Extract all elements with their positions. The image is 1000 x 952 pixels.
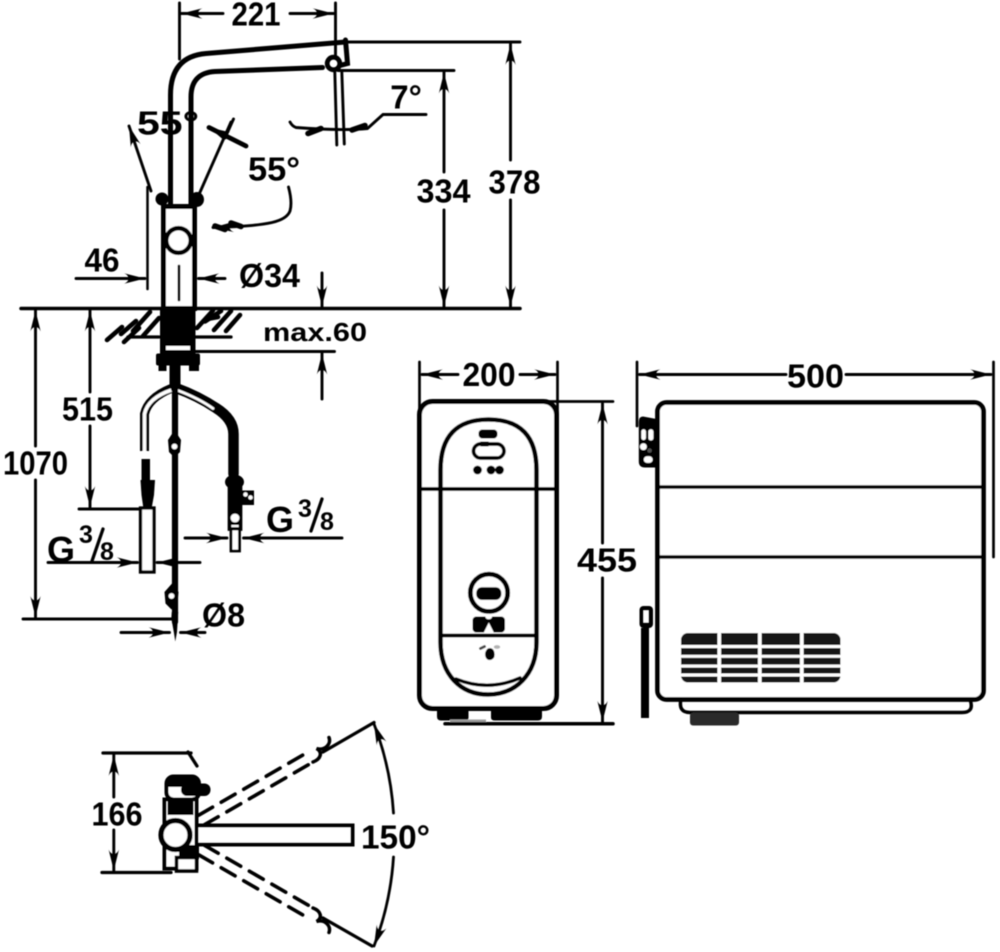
FAUCET-FRONT-VIEW [3,0,541,642]
svg-text:455: 455 [577,542,637,579]
dimension 200 extension line right [556,362,559,489]
icon dots row [473,466,482,475]
mousseur stream line right [342,72,345,145]
shank white slot [166,346,190,350]
dimension 378 vertical line upper segment [509,44,512,160]
base skirt line [680,699,971,713]
dimension 46 extension line [146,187,149,289]
dimension 515 line upper segment [89,311,92,393]
COOLER-FRONT-VIEW [420,356,638,724]
upper break mark [313,738,330,763]
foot right [491,709,542,721]
7-degree wedge tick right [352,126,365,131]
55-degree second leader tick b [231,223,241,227]
svg-text:G: G [266,499,294,540]
droplet mark [485,648,495,660]
svg-text:55°: 55° [137,105,199,142]
body top view outline [165,800,197,869]
reference line top of spout for 378 [348,41,520,44]
swivel dashed ray lower line a [204,845,309,905]
svg-text:334: 334 [417,173,472,210]
swivel dashed ray lower line b [199,855,304,916]
dimension 334 vertical line lower segment [443,210,446,307]
svg-text:166: 166 [92,796,143,833]
max60 lower arrow [321,354,324,400]
55-degree rotation double arrow [209,128,246,147]
dimension diameter34 line with arrow [199,277,226,280]
swivel dashed ray upper line a [204,764,309,824]
svg-text:46: 46 [85,242,120,279]
svg-text:55°: 55° [248,151,300,188]
left hose black segment [142,459,151,481]
control knob bar [476,587,501,600]
arch lower seam [441,634,536,638]
55-degree left leader with arrow [129,126,151,191]
spout outer contour [171,42,346,208]
faucet body circle detail [166,228,191,253]
svg-text:515: 515 [62,391,113,428]
mousseur stream line left [335,72,337,146]
base foot block [690,713,739,726]
FAUCET-TOP-VIEW [92,723,431,947]
right hose thin tube [231,529,240,551]
central rod bulge 1 [168,430,181,458]
handle dark top [167,777,200,788]
reference end tick [188,752,197,766]
arch chin line [456,678,520,685]
cooler side seam line 2 [659,555,982,559]
supply stem [170,366,181,393]
swivel arc lower with arrow [374,857,394,946]
svg-text:8: 8 [320,508,334,536]
dimension 1070 line upper segment [34,311,37,447]
body dark band [168,802,194,816]
dimension 166 line lower segment [112,830,115,871]
dimension 455 line upper segment [601,404,604,544]
cooler side seam line 1 [659,485,982,489]
handle shoulder blob left [156,193,169,206]
upper solid segment [323,723,374,753]
55-degree second leader tick a [215,226,225,230]
cable [641,628,649,718]
left hose bulge cap [141,480,156,509]
countertop hatching [107,311,240,343]
dimension 515 line lower segment [89,426,92,507]
dimension 221 line with arrows [182,12,334,15]
gray smudge under left foot [450,720,486,724]
dimension 455 top reference line [539,400,613,403]
dimension 378 vertical line lower segment [509,200,512,307]
diameter8 dimension line [121,631,170,634]
faucet shank below deck [160,309,196,354]
G38 left label [47,521,114,570]
handle lever pill [181,784,211,797]
dimension 200 line with arrows [422,373,458,376]
svg-text:Ø34: Ø34 [239,257,301,294]
swivel dashed ray upper line b [199,755,304,816]
right hose branch [176,388,234,474]
svg-text:500: 500 [787,358,844,395]
top icon pill [479,430,498,439]
base foot top view [177,858,197,872]
lower break mark [313,908,330,933]
ground line [445,722,613,726]
foot left [437,709,469,721]
central rod [172,372,178,622]
cable clip [640,606,654,628]
nut tab right [189,363,199,371]
7-degree leader line [290,115,426,130]
faucet body center tick [178,266,181,300]
faucet body outline [164,207,195,309]
7-degree wedge tick left [308,129,321,134]
55-degree second leader line [213,187,291,228]
svg-text:200: 200 [463,356,516,393]
countertop deck line [21,307,520,311]
cooler front outer case [420,402,557,709]
svg-text:3: 3 [79,521,93,549]
svg-text:Ø8: Ø8 [202,597,245,634]
svg-text:1070: 1070 [3,445,68,482]
svg-text:378: 378 [489,164,541,201]
spout inner contour [191,68,323,209]
left hose branch outline [145,389,172,452]
dimension 500 extension line right [992,362,995,557]
swivel arc upper with arrow [374,724,394,813]
countertop bottom line left [128,335,159,338]
right hose connector body [230,488,241,529]
dimension 200 extension line left [418,362,421,438]
right hose connector side tab [241,491,255,506]
cooler front seam line [421,487,556,491]
dimension 166 top reference line [103,751,191,754]
G38 right dimension line [185,537,227,540]
spout bar top view [178,826,353,845]
515 reference line [79,508,140,511]
dimension 46 line with arrow [76,277,145,280]
max60 upper arrow [321,273,324,307]
spout end cap [340,40,348,66]
vent grille [681,633,841,683]
max60 reference line [193,350,335,353]
control knob ring [470,574,507,611]
countertop bottom line right [196,335,231,338]
svg-text:7°: 7° [390,79,422,116]
right hose connector white circle [231,514,240,523]
handle shoulder blob right [190,192,204,207]
dimension 166 bottom reference line [102,871,171,874]
G38 right label [266,495,334,540]
reference line outlet for 334 [338,69,454,72]
dimension 1070 line lower segment [34,480,37,617]
left hose G38 tube [141,508,155,572]
svg-text:max.60: max.60 [263,317,367,347]
55-degree right leader line [197,122,231,199]
icon outlined pill [474,444,505,458]
central rod bulge 2 [165,584,179,610]
cooler front door arch [441,420,537,695]
svg-text:150°: 150° [361,819,430,856]
pivot ring [161,821,190,850]
right hose connector dark top [230,489,240,525]
wall bracket block [639,417,657,468]
icon pill top bump [479,442,490,447]
1070 reference line [23,618,174,621]
lower solid segment [323,918,372,946]
dimension 500 extension line left [636,362,639,426]
dimension 455 line lower segment [601,578,604,722]
lower blob [179,845,199,860]
central rod tip [171,612,178,642]
dimension 500 line with arrows [640,373,787,376]
nut tab left [159,366,167,372]
G38 left dimension line [48,561,138,564]
55-degree right cross tick [225,119,234,138]
spout outlet ring [327,57,340,70]
COOLER-SIDE-VIEW [637,358,994,726]
right hose knob end [225,475,244,490]
mounting nut [156,354,200,366]
handle top view outline [167,777,200,800]
svg-text:221: 221 [232,0,281,33]
dimension 334 vertical line upper segment [443,73,446,173]
dimension 166 line upper segment [112,755,115,797]
cooler side outer case [658,403,984,700]
dimension 221 extension line right [334,3,337,58]
svg-text:3: 3 [298,495,312,523]
bowtie icon [473,614,506,634]
dimension 221 extension line left [178,3,181,59]
